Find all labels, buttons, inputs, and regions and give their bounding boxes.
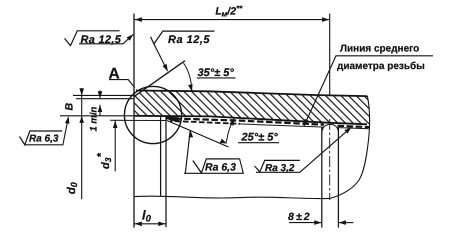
svg-text:B: B xyxy=(64,103,76,111)
svg-text:35°± 5°: 35°± 5° xyxy=(198,67,235,79)
svg-text:A: A xyxy=(109,65,120,82)
svg-text:1 min: 1 min xyxy=(89,106,100,131)
svg-text:8 ± 2: 8 ± 2 xyxy=(288,211,310,223)
svg-text:Ra 6,3: Ra 6,3 xyxy=(205,162,236,174)
svg-text:25°± 5°: 25°± 5° xyxy=(241,132,279,144)
svg-text:Ra 12,5: Ra 12,5 xyxy=(168,34,210,46)
svg-text:диаметра резьбы: диаметра резьбы xyxy=(337,61,425,72)
svg-text:Ra 6,3: Ra 6,3 xyxy=(29,134,59,145)
svg-text:Ra 12,5: Ra 12,5 xyxy=(81,34,122,46)
svg-text:Линия среднего: Линия среднего xyxy=(340,43,419,54)
svg-text:Ra 3,2: Ra 3,2 xyxy=(265,163,295,174)
